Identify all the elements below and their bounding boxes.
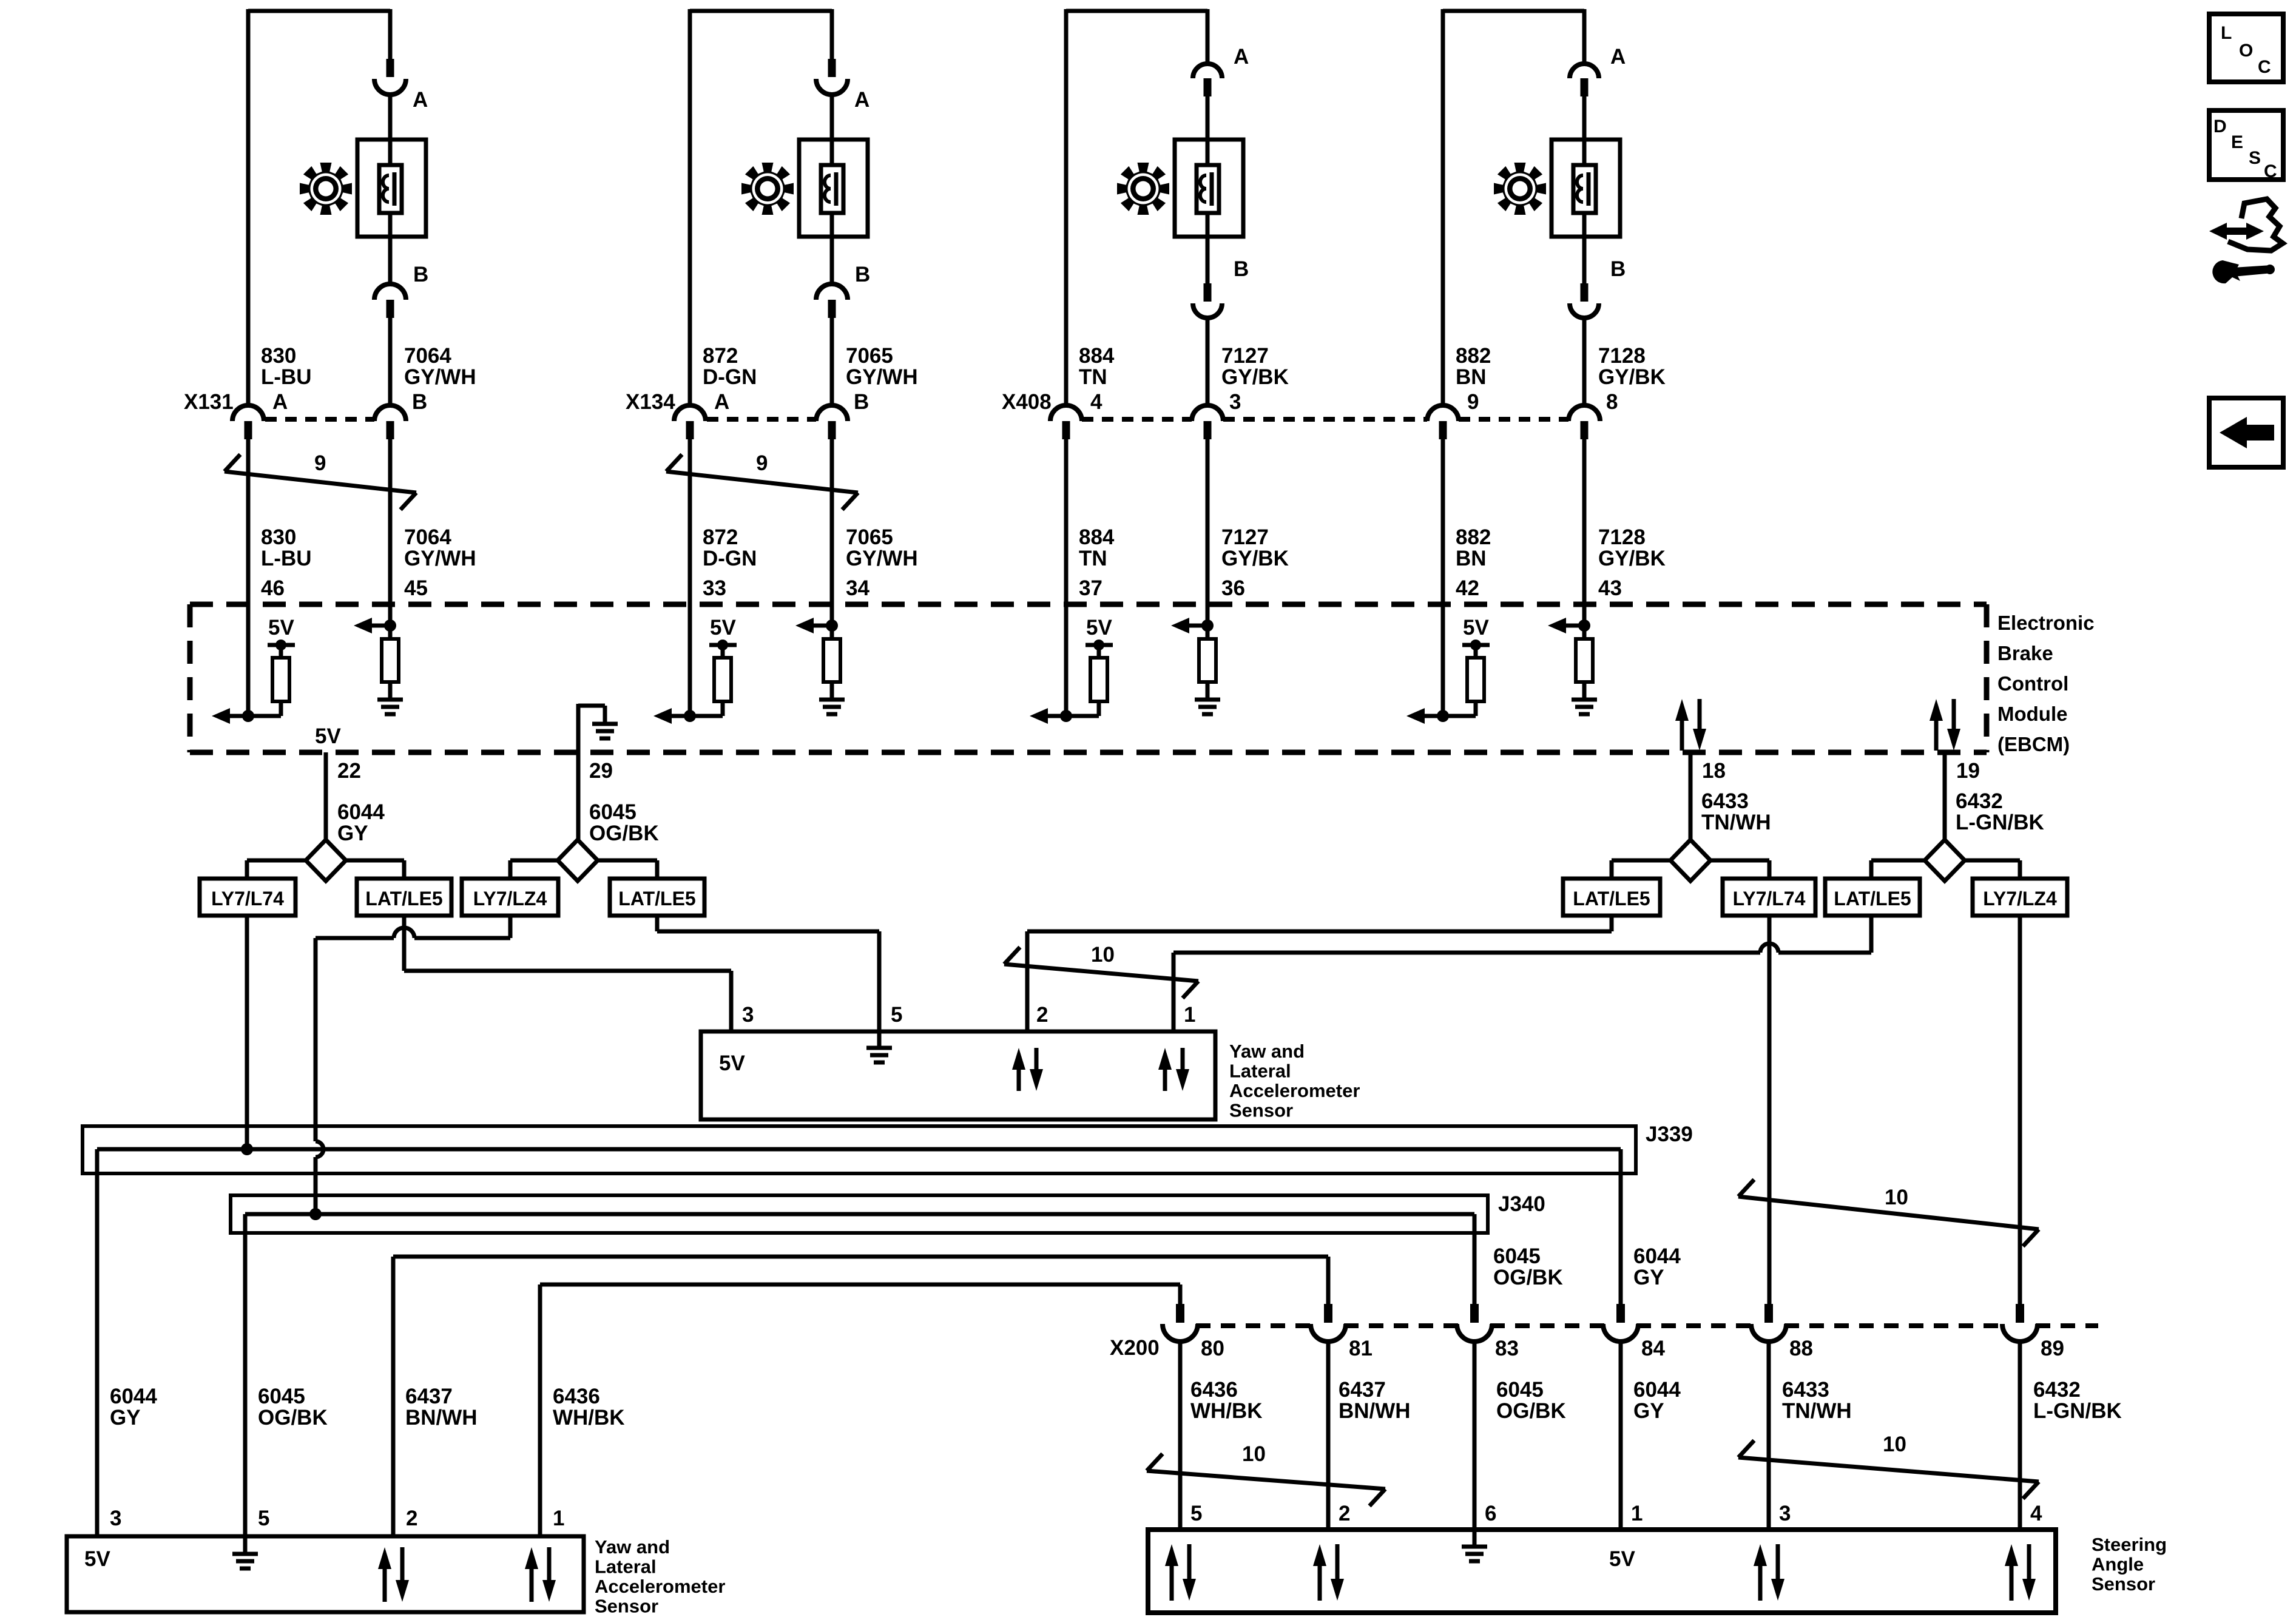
svg-text:TN/WH: TN/WH	[1782, 1399, 1852, 1423]
svg-text:GY/WH: GY/WH	[846, 547, 918, 570]
svg-text:A: A	[413, 88, 428, 112]
svg-text:C: C	[2258, 57, 2271, 77]
svg-text:X408: X408	[1002, 390, 1052, 414]
svg-text:X134: X134	[626, 390, 675, 414]
svg-text:C: C	[2264, 161, 2277, 181]
svg-text:872: 872	[703, 344, 738, 368]
svg-text:6044: 6044	[337, 800, 385, 824]
svg-text:A: A	[714, 390, 729, 414]
svg-text:36: 36	[1221, 576, 1245, 600]
svg-text:Accelerometer: Accelerometer	[1229, 1080, 1360, 1101]
svg-text:LY7/L74: LY7/L74	[1733, 888, 1806, 910]
svg-text:Lateral: Lateral	[595, 1556, 657, 1578]
svg-text:A: A	[1610, 45, 1626, 69]
svg-text:88: 88	[1789, 1337, 1813, 1360]
svg-text:OG/BK: OG/BK	[1496, 1399, 1566, 1423]
svg-text:6044: 6044	[110, 1385, 157, 1408]
svg-text:Lateral: Lateral	[1229, 1061, 1291, 1082]
svg-text:9: 9	[314, 451, 326, 475]
svg-text:J340: J340	[1498, 1192, 1545, 1216]
svg-text:B: B	[413, 263, 428, 286]
svg-text:830: 830	[261, 525, 296, 549]
svg-text:7065: 7065	[846, 344, 893, 368]
svg-text:LY7/LZ4: LY7/LZ4	[473, 888, 547, 910]
svg-text:882: 882	[1456, 344, 1491, 368]
svg-text:5V: 5V	[1086, 616, 1112, 640]
svg-text:Yaw and: Yaw and	[595, 1536, 670, 1558]
svg-text:46: 46	[261, 576, 285, 600]
svg-text:7127: 7127	[1221, 344, 1269, 368]
svg-text:A: A	[272, 390, 288, 414]
svg-text:80: 80	[1201, 1337, 1224, 1360]
svg-text:Brake: Brake	[1997, 642, 2053, 664]
svg-text:45: 45	[404, 576, 428, 600]
svg-text:Sensor: Sensor	[2092, 1573, 2155, 1595]
svg-text:LY7/L74: LY7/L74	[211, 888, 284, 910]
svg-text:BN: BN	[1456, 547, 1487, 570]
svg-text:6432: 6432	[1956, 789, 2003, 813]
svg-text:6: 6	[1485, 1502, 1496, 1525]
svg-text:6044: 6044	[1633, 1378, 1681, 1402]
svg-text:43: 43	[1598, 576, 1622, 600]
svg-text:L-BU: L-BU	[261, 547, 312, 570]
svg-text:84: 84	[1641, 1337, 1665, 1360]
svg-text:830: 830	[261, 344, 296, 368]
svg-text:LY7/LZ4: LY7/LZ4	[1983, 888, 2057, 910]
svg-text:7064: 7064	[404, 525, 451, 549]
svg-text:2: 2	[1036, 1003, 1048, 1027]
svg-text:X131: X131	[184, 390, 234, 414]
svg-text:5V: 5V	[719, 1052, 745, 1075]
svg-text:89: 89	[2041, 1337, 2064, 1360]
svg-text:5V: 5V	[710, 616, 736, 640]
svg-text:Yaw and: Yaw and	[1229, 1041, 1305, 1062]
svg-text:1: 1	[553, 1507, 564, 1530]
svg-text:3: 3	[1779, 1502, 1791, 1525]
svg-text:5V: 5V	[84, 1547, 110, 1571]
svg-text:Control: Control	[1997, 672, 2068, 695]
svg-text:Electronic: Electronic	[1997, 612, 2095, 634]
svg-text:1: 1	[1184, 1003, 1195, 1027]
svg-text:B: B	[1610, 257, 1626, 281]
svg-text:GY/WH: GY/WH	[404, 365, 476, 389]
svg-text:6045: 6045	[258, 1385, 305, 1408]
svg-text:7064: 7064	[404, 344, 451, 368]
svg-text:9: 9	[1467, 390, 1479, 414]
svg-text:TN: TN	[1079, 547, 1107, 570]
svg-text:18: 18	[1702, 759, 1726, 783]
svg-text:872: 872	[703, 525, 738, 549]
svg-text:6044: 6044	[1633, 1244, 1681, 1268]
svg-text:E: E	[2231, 132, 2243, 152]
svg-text:GY/WH: GY/WH	[846, 365, 918, 389]
svg-text:WH/BK: WH/BK	[553, 1406, 625, 1430]
svg-text:884: 884	[1079, 344, 1115, 368]
svg-text:81: 81	[1349, 1337, 1373, 1360]
svg-text:A: A	[854, 88, 869, 112]
svg-text:34: 34	[846, 576, 869, 600]
svg-text:22: 22	[337, 759, 361, 783]
svg-text:3: 3	[742, 1003, 754, 1027]
svg-text:GY/WH: GY/WH	[404, 547, 476, 570]
svg-text:X200: X200	[1110, 1336, 1160, 1360]
svg-text:4: 4	[2030, 1502, 2042, 1525]
svg-text:OG/BK: OG/BK	[1493, 1266, 1563, 1289]
svg-text:6433: 6433	[1782, 1378, 1829, 1402]
svg-text:L-GN/BK: L-GN/BK	[1956, 811, 2044, 834]
svg-text:6437: 6437	[405, 1385, 453, 1408]
svg-text:7128: 7128	[1598, 344, 1646, 368]
svg-text:Sensor: Sensor	[1229, 1100, 1293, 1121]
svg-text:3: 3	[110, 1507, 121, 1530]
svg-text:33: 33	[703, 576, 726, 600]
svg-text:WH/BK: WH/BK	[1190, 1399, 1263, 1423]
svg-text:29: 29	[589, 759, 613, 783]
svg-text:L-GN/BK: L-GN/BK	[2033, 1399, 2122, 1423]
svg-text:10: 10	[1885, 1186, 1908, 1209]
svg-text:(EBCM): (EBCM)	[1997, 733, 2070, 755]
svg-text:J339: J339	[1646, 1122, 1693, 1146]
svg-text:7065: 7065	[846, 525, 893, 549]
svg-text:LAT/LE5: LAT/LE5	[1573, 888, 1650, 910]
svg-text:LAT/LE5: LAT/LE5	[365, 888, 442, 910]
svg-text:OG/BK: OG/BK	[258, 1406, 328, 1430]
svg-text:D-GN: D-GN	[703, 365, 757, 389]
svg-text:A: A	[1234, 45, 1249, 69]
svg-text:OG/BK: OG/BK	[589, 822, 659, 845]
svg-text:Sensor: Sensor	[595, 1596, 658, 1617]
svg-text:GY: GY	[337, 822, 368, 845]
svg-text:GY/BK: GY/BK	[1598, 365, 1666, 389]
svg-text:TN/WH: TN/WH	[1701, 811, 1771, 834]
svg-text:Module: Module	[1997, 703, 2067, 725]
svg-text:5V: 5V	[1609, 1547, 1635, 1571]
svg-text:5: 5	[258, 1507, 269, 1530]
svg-text:2: 2	[1339, 1502, 1350, 1525]
svg-text:5: 5	[891, 1003, 902, 1027]
svg-text:6045: 6045	[1493, 1244, 1541, 1268]
svg-text:884: 884	[1079, 525, 1115, 549]
svg-text:BN/WH: BN/WH	[1339, 1399, 1411, 1423]
svg-text:GY: GY	[1633, 1399, 1664, 1423]
svg-text:5: 5	[1190, 1502, 1202, 1525]
svg-text:8: 8	[1606, 390, 1618, 414]
svg-text:BN: BN	[1456, 365, 1487, 389]
svg-text:7128: 7128	[1598, 525, 1646, 549]
svg-text:GY/BK: GY/BK	[1221, 547, 1289, 570]
svg-text:BN/WH: BN/WH	[405, 1406, 478, 1430]
svg-text:TN: TN	[1079, 365, 1107, 389]
svg-text:5V: 5V	[1463, 616, 1489, 640]
svg-text:10: 10	[1242, 1442, 1266, 1466]
svg-text:6045: 6045	[1496, 1378, 1544, 1402]
svg-text:7127: 7127	[1221, 525, 1269, 549]
svg-text:GY/BK: GY/BK	[1598, 547, 1666, 570]
svg-text:37: 37	[1079, 576, 1102, 600]
svg-text:L: L	[2221, 23, 2232, 43]
svg-text:10: 10	[1883, 1433, 1906, 1456]
svg-text:B: B	[855, 263, 870, 286]
svg-text:L-BU: L-BU	[261, 365, 312, 389]
svg-text:GY: GY	[1633, 1266, 1664, 1289]
svg-text:B: B	[412, 390, 427, 414]
svg-text:6433: 6433	[1701, 789, 1749, 813]
svg-text:O: O	[2239, 41, 2253, 61]
svg-text:Angle: Angle	[2092, 1554, 2144, 1575]
svg-text:GY: GY	[110, 1406, 141, 1430]
svg-text:3: 3	[1229, 390, 1241, 414]
svg-text:2: 2	[406, 1507, 417, 1530]
svg-text:6437: 6437	[1339, 1378, 1386, 1402]
svg-text:D: D	[2213, 116, 2227, 137]
svg-text:5V: 5V	[268, 616, 294, 640]
svg-text:4: 4	[1090, 390, 1102, 414]
svg-text:83: 83	[1495, 1337, 1519, 1360]
svg-text:6045: 6045	[589, 800, 636, 824]
svg-text:5V: 5V	[315, 724, 341, 748]
svg-text:GY/BK: GY/BK	[1221, 365, 1289, 389]
svg-text:6436: 6436	[553, 1385, 600, 1408]
svg-text:42: 42	[1456, 576, 1479, 600]
svg-text:6432: 6432	[2033, 1378, 2081, 1402]
svg-text:882: 882	[1456, 525, 1491, 549]
svg-text:6436: 6436	[1190, 1378, 1238, 1402]
svg-text:19: 19	[1956, 759, 1980, 783]
svg-text:LAT/LE5: LAT/LE5	[1834, 888, 1911, 910]
svg-text:10: 10	[1091, 943, 1115, 967]
svg-text:Accelerometer: Accelerometer	[595, 1576, 725, 1597]
svg-text:B: B	[854, 390, 869, 414]
svg-text:D-GN: D-GN	[703, 547, 757, 570]
svg-text:1: 1	[1631, 1502, 1643, 1525]
svg-text:B: B	[1234, 257, 1249, 281]
svg-text:LAT/LE5: LAT/LE5	[618, 888, 695, 910]
svg-text:S: S	[2249, 148, 2261, 168]
svg-text:Steering: Steering	[2092, 1534, 2167, 1555]
svg-text:9: 9	[756, 451, 768, 475]
